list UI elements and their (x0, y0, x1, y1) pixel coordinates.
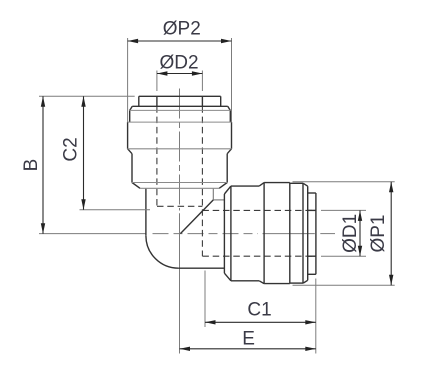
svg-text:ØP1: ØP1 (368, 214, 389, 252)
svg-text:ØP2: ØP2 (163, 19, 201, 40)
svg-text:ØD2: ØD2 (159, 53, 198, 74)
svg-text:E: E (242, 329, 255, 350)
svg-text:C2: C2 (61, 137, 82, 161)
svg-text:C1: C1 (247, 299, 271, 320)
svg-text:ØD1: ØD1 (340, 214, 361, 253)
svg-text:B: B (21, 159, 42, 172)
